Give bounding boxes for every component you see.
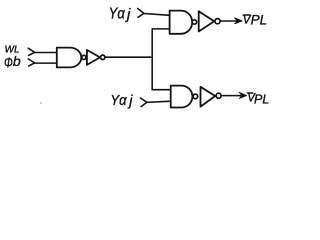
bubble U4 output — [215, 19, 220, 24]
svg-text:Yα: Yα — [110, 93, 127, 109]
bubble U6 output — [216, 93, 221, 98]
NAND gate U3 — [170, 11, 193, 34]
svg-text:j: j — [125, 6, 131, 23]
node VPL top overline — [243, 14, 250, 16]
wire U4 output arrow — [220, 20, 240, 22]
wire branch to U3 — [152, 28, 169, 30]
NAND gate U5 — [171, 86, 193, 108]
bubble U3 output — [192, 20, 196, 24]
bubble U2 output — [101, 55, 105, 59]
svg-text:Φ: Φ — [4, 54, 13, 71]
wire U6 output arrow — [221, 95, 245, 97]
svg-text:b: b — [13, 53, 21, 69]
inverter U4 — [199, 11, 215, 31]
input chevron PHIb — [28, 59, 34, 66]
wire Yaj top to U3 — [144, 14, 170, 16]
svg-text:j: j — [127, 93, 133, 109]
bubble U1 output — [82, 55, 86, 59]
wire Yaj bottom to U5 — [147, 101, 171, 102]
svg-text:PL: PL — [251, 13, 268, 28]
bubble U5 output — [193, 94, 198, 99]
arrowhead VPL top — [235, 18, 242, 24]
arrowhead VPL bottom — [239, 92, 246, 98]
svg-text:PL: PL — [254, 93, 269, 107]
wire branch to U5 — [152, 89, 170, 91]
input chevron Yaj bottom — [140, 98, 147, 107]
node VPL bottom overline — [247, 92, 253, 94]
wire WL to U1 — [35, 52, 57, 54]
inverter U6 — [201, 87, 216, 107]
svg-text:Yα: Yα — [109, 6, 126, 23]
wire U2 to branch node — [105, 56, 152, 58]
inverter U2 — [87, 50, 100, 65]
input chevron WL — [28, 48, 34, 55]
input chevron Yaj top — [138, 8, 144, 17]
wire PHIb to U1 — [35, 62, 57, 64]
wire branch vertical — [151, 29, 153, 90]
speck artifact — [40, 102, 41, 103]
NAND gate U1 — [57, 48, 82, 68]
